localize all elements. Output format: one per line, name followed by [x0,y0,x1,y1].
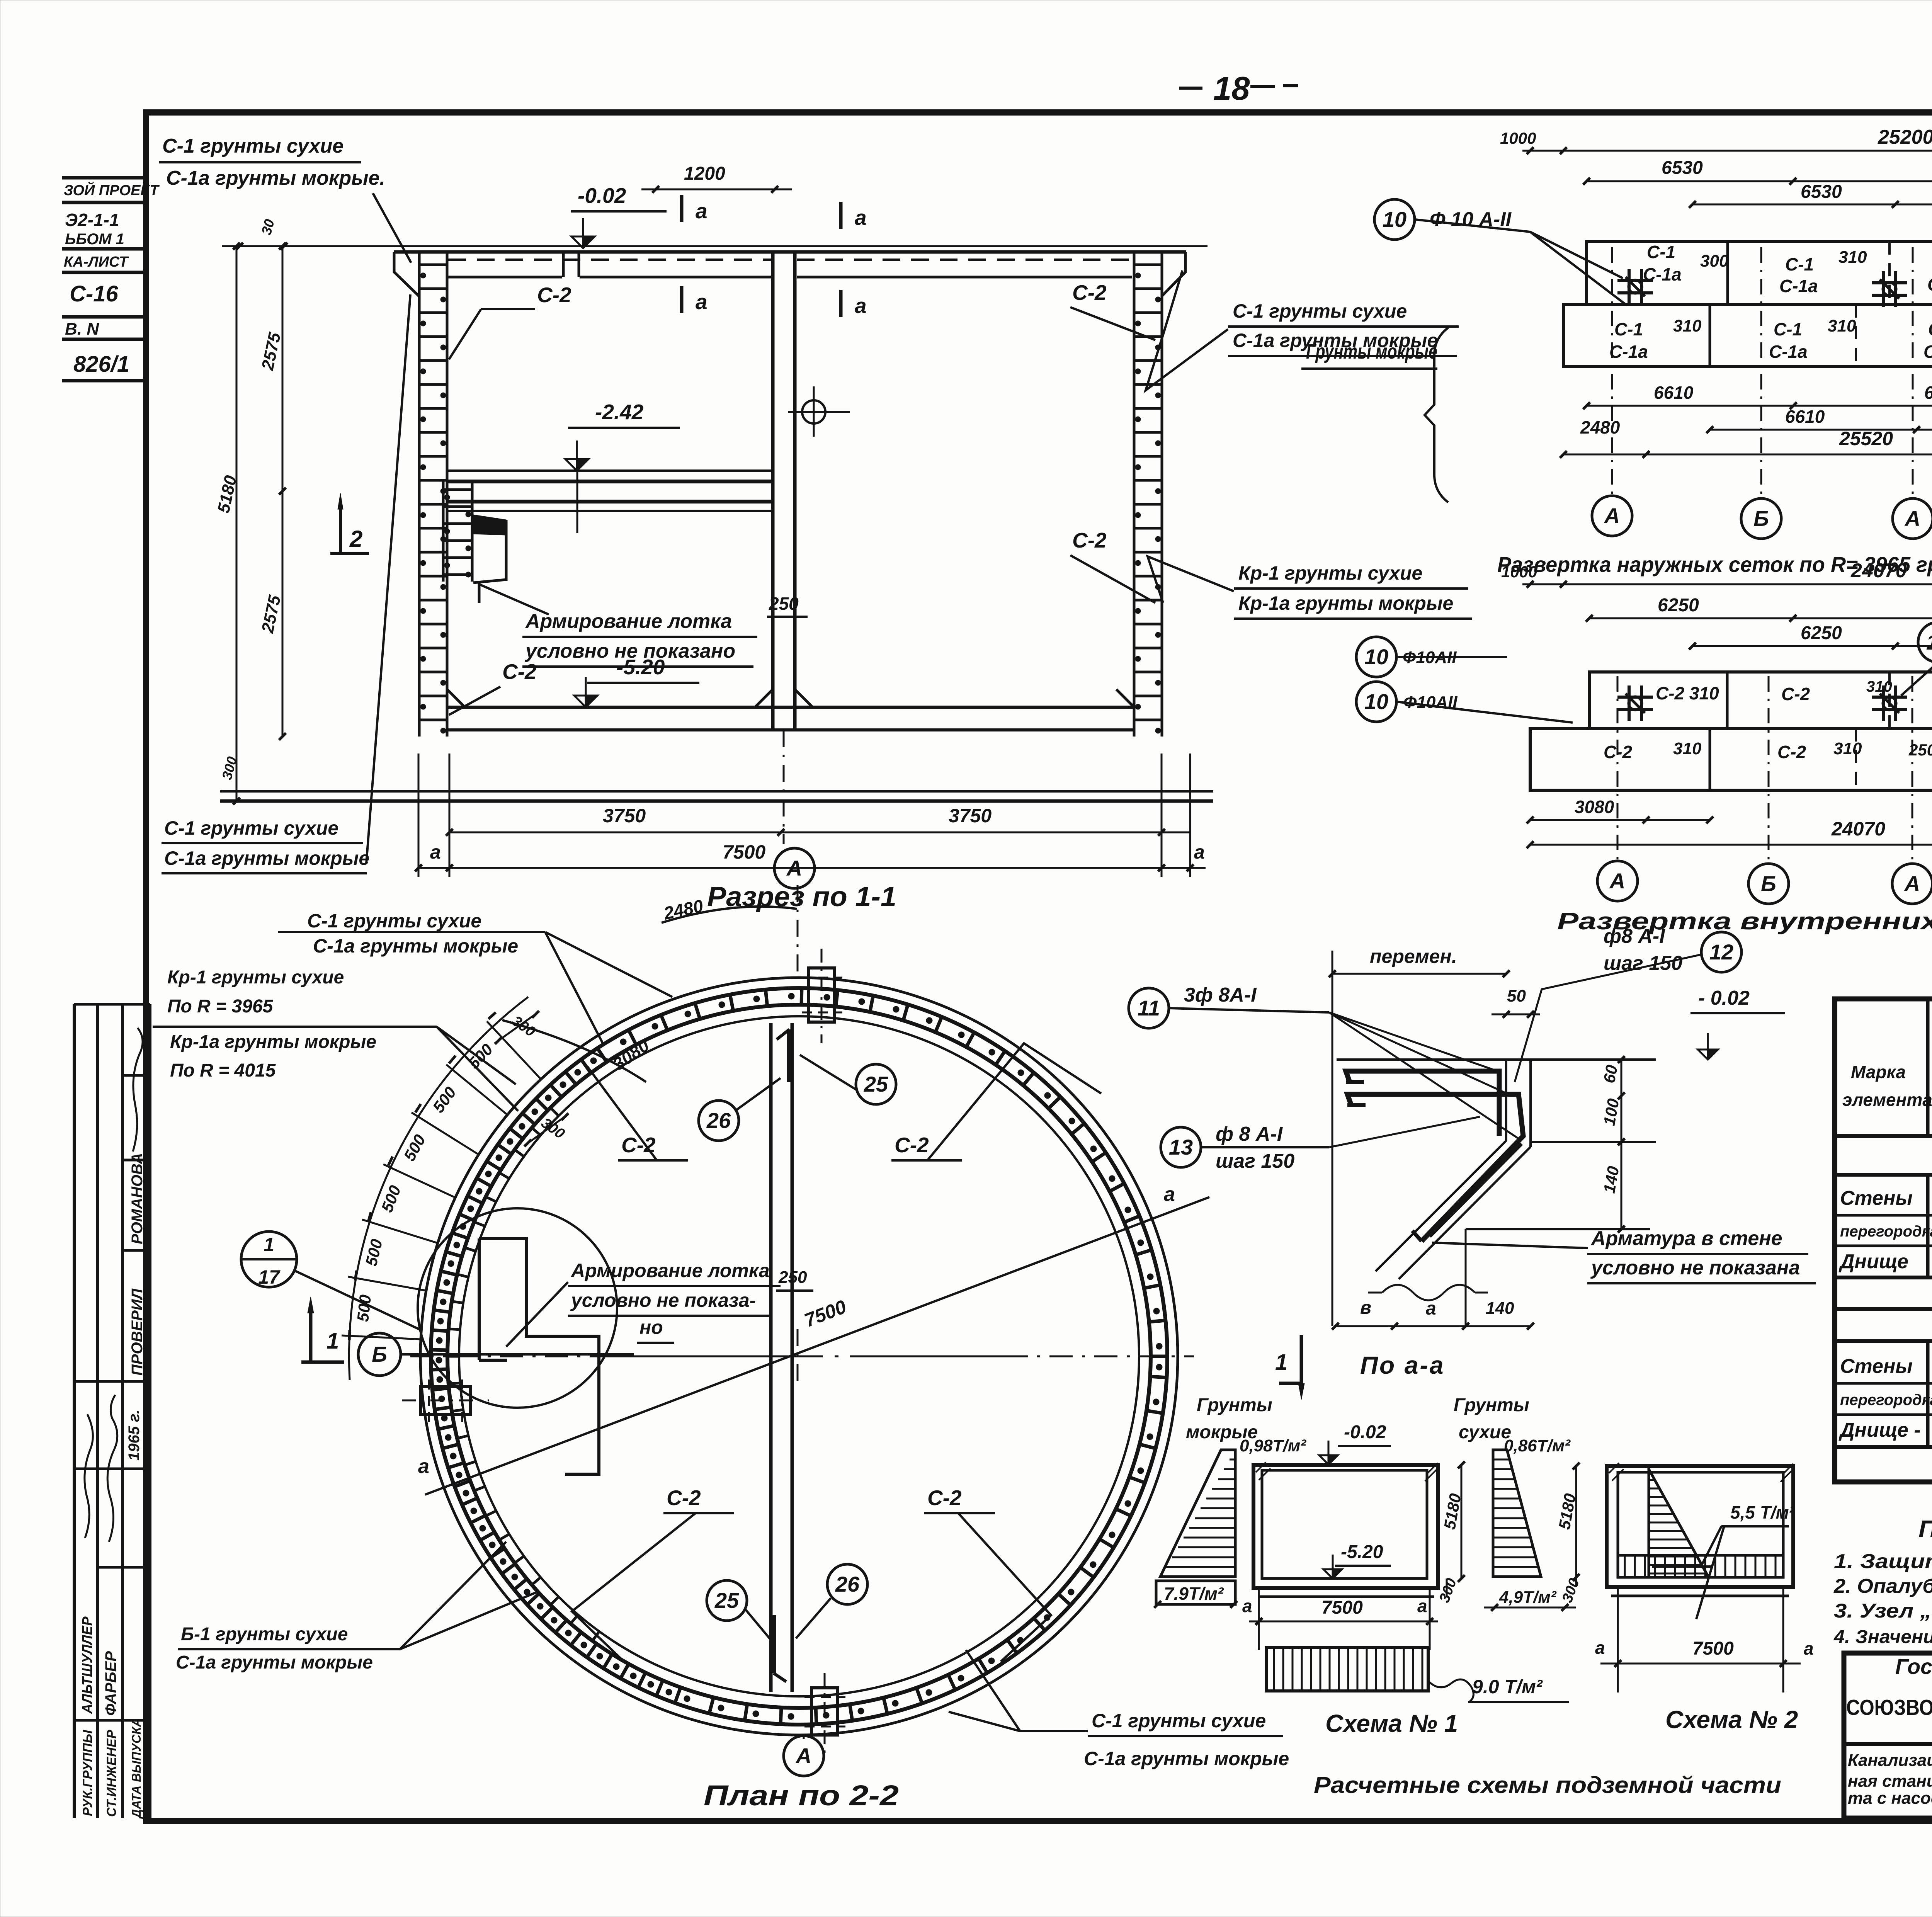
grid circle Б band2 [1748,864,1789,904]
svg-text:С-2: С-2 [537,283,571,307]
svg-text:А: А [795,1744,811,1768]
svg-text:элемента: элемента [1842,1090,1932,1110]
schema2 tank outer [1607,1466,1793,1587]
partition top rebar end [787,1029,792,1082]
svg-text:а: а [1426,1298,1436,1319]
poaa wall verticals [1505,1060,1507,1141]
schema1 left load triangle [1160,1450,1235,1577]
svg-text:3750: 3750 [949,805,992,827]
svg-text:Схема № 1: Схема № 1 [1325,1709,1458,1737]
svg-text:6530: 6530 [1662,158,1703,178]
svg-text:ФАРБЕР: ФАРБЕР [102,1651,119,1716]
svg-text:КА-ЛИСТ: КА-ЛИСТ [64,254,129,270]
svg-text:4,9Т/м²: 4,9Т/м² [1499,1588,1557,1607]
wall C-1 left ladder [418,253,421,737]
band1 bottom dim chain 6610 upper [1587,405,1932,407]
svg-text:Стены: Стены [1840,1355,1913,1378]
svg-text:18: 18 [1213,70,1250,107]
leaders from C-1 label to ring [966,1650,1088,1731]
lotok slab step edge vertical [577,472,578,533]
svg-text:300: 300 [1700,252,1729,270]
band2 bottom chain 24070 1000 [1530,844,1932,846]
svg-text:а: а [1242,1596,1252,1616]
schema1 bottom dim 7500 [1249,1621,1438,1623]
table band грунты сухие bottom [1835,1173,1932,1177]
svg-text:С-1: С-1 [1785,254,1814,274]
table band грунты мокрые bottom [1835,1339,1932,1343]
band1 row1 rectangle [1587,242,1932,304]
svg-text:4. Значения„а",„б",„в" смотри: 4. Значения„а",„б",„в" смотрите на листе… [1833,1627,1932,1647]
table row lines dry [1835,1214,1932,1217]
svg-text:Б: Б [1761,871,1776,896]
callout 26 plan top [699,1101,739,1141]
top slab dashed line right span [797,259,1132,261]
band1 row1 divider dashed [1888,242,1891,304]
callout 26 plan bottom [827,1564,867,1604]
band1 bottom dim chain 6610 lower [1710,429,1932,431]
grid circle Б band1 [1741,498,1781,539]
svg-text:перегородка: перегородка [1840,1391,1932,1408]
leader from Kr-1 to ring [437,1027,516,1084]
svg-text:1: 1 [327,1328,339,1354]
svg-text:та с насосами 2 ½ НФ или: та с насосами 2 ½ НФ или [1848,1789,1932,1808]
svg-text:Кр-1а грунты мокрые: Кр-1а грунты мокрые [1238,592,1453,614]
schema1 dim 300 right [1446,1579,1448,1597]
svg-text:С-1 грунты сухие: С-1 грунты сухие [307,910,481,932]
pipe axis circle on partition [802,400,825,424]
svg-text:С-2 310: С-2 310 [1656,683,1719,703]
section mark 2 flag [339,509,342,553]
svg-text:1. Защитный слой бетона: 1. Защитный слой бетона для--арматуры пр… [1834,1550,1932,1573]
leaders from Б-1 label to ring [400,1542,506,1649]
schema2 dim 5180 left [1575,1466,1577,1587]
svg-text:шаг 150: шаг 150 [1604,952,1682,975]
step ladder detail in left chamber [442,481,445,582]
poaa rebar second bar [1347,1094,1523,1241]
section cut a mark right upper [839,202,843,229]
plan ring circle 2 [431,988,1167,1725]
schema1 load value box 7.9 [1156,1581,1235,1604]
svg-text:6610: 6610 [1924,383,1932,403]
grid circle A2 band2 [1892,864,1932,904]
leader from note to wall [1432,1243,1588,1248]
svg-text:Днище -: Днище - [1838,1419,1921,1441]
band1 mesh anchor cross 1 [1617,279,1653,282]
plan horizontal centerline [410,1356,591,1357]
svg-text:С-2: С-2 [1072,281,1107,304]
svg-text:Ф 10 А-II: Ф 10 А-II [1430,208,1512,231]
svg-text:По R = 3965: По R = 3965 [167,996,274,1017]
svg-text:А: А [1604,503,1620,528]
band1 row2 rectangle [1563,304,1932,366]
extension verticals for dims [418,754,420,877]
bottom dim line 7500 [418,867,1206,869]
svg-text:60: 60 [1600,1063,1621,1084]
plan left mesh extra rungs [551,1108,559,1116]
svg-text:но: но [639,1317,663,1338]
svg-text:11: 11 [1138,996,1160,1020]
svg-text:А: А [1904,871,1920,896]
svg-text:7500: 7500 [1692,1638,1734,1659]
svg-text:С-1а: С-1а [1779,276,1818,296]
svg-text:6250: 6250 [1658,595,1699,616]
table column lines header [1926,999,1930,1136]
callout 25 plan bottom [707,1580,747,1621]
poaa left extension vertical [1332,951,1333,1326]
section cut a lower mark [680,286,684,313]
svg-text:12: 12 [1709,940,1733,964]
svg-text:С-1 грунты сухие: С-1 грунты сухие [1233,300,1407,322]
svg-text:310: 310 [1838,248,1867,267]
grid circle A band2 [1597,861,1638,901]
svg-text:50: 50 [1507,987,1526,1005]
svg-text:Примечания:: Примечания: [1918,1516,1932,1543]
band2 row1 divider dashed [1888,672,1891,728]
svg-text:А: А [1904,506,1920,531]
svg-text:ф8 А-I: ф8 А-I [1604,925,1665,947]
leader from 1/17 to detail [294,1271,419,1329]
svg-text:а: а [696,290,707,314]
band2 dim 6250 row A [1589,617,1932,619]
plan axis A vertical dash-dot [797,885,799,974]
leader from lower label to wall base [366,294,410,864]
svg-text:С-2: С-2 [1777,742,1806,762]
squiggle to 9.0 [1428,1679,1473,1703]
section top slab edge [394,250,1186,254]
top slab inner line right span [797,276,1132,279]
table column lines data rows wet [1926,1341,1930,1447]
узел detail bubble circle [418,1208,617,1408]
svg-text:7500: 7500 [1321,1597,1363,1618]
left wall head chamfer [394,252,419,296]
svg-text:6610: 6610 [1654,383,1694,403]
band1 dim chain 6530 row A [1587,180,1932,182]
section cut a mark right lower [839,290,843,317]
svg-text:25520: 25520 [1839,428,1893,449]
section mark 1 upper [309,1313,313,1362]
poaa wall top surface line [1337,1058,1656,1061]
svg-text:- 0.02: - 0.02 [1698,987,1750,1009]
signature strip columns [73,1004,76,1818]
svg-text:0,98Т/м²: 0,98Т/м² [1240,1436,1306,1455]
svg-text:7.9Т/м²: 7.9Т/м² [1164,1584,1224,1604]
svg-text:6530: 6530 [1801,182,1842,202]
plan inner ring circle [459,1016,1139,1696]
band2 axis extensions [1617,676,1619,861]
grid circle A2 band1 [1893,498,1932,539]
top slab notch left span [562,252,565,277]
diagonal axis a-a with 7500 [425,1197,1209,1495]
svg-text:Б: Б [1753,506,1769,531]
poaa break squiggle [1382,1285,1475,1300]
svg-text:условно не показано: условно не показано [524,640,735,662]
plan outer ring circle [420,978,1178,1735]
svg-text:а: а [430,841,441,863]
svg-text:С-2: С-2 [1781,684,1810,704]
schema2 top corner hatch marks [1609,1463,1793,1482]
svg-text:условно не показа-: условно не показа- [570,1289,756,1311]
callout 12 ф8А-I шаг150 top [1701,932,1742,972]
table outer border [1835,999,1932,1482]
svg-text:ПРОВЕРИЛ: ПРОВЕРИЛ [129,1288,146,1376]
poaa diagonal rebar second [1430,1144,1522,1237]
svg-text:ДАТА ВЫПУСКА: ДАТА ВЫПУСКА [129,1718,143,1819]
svg-text:СОЮЗВОДОКАНАЛПРОЕКТ: СОЮЗВОДОКАНАЛПРОЕКТ [1846,1695,1932,1720]
grid circle A bottom of plan [784,1736,824,1776]
plan partition wall vertical double line [769,1023,773,1692]
svg-text:9.0 Т/м²: 9.0 Т/м² [1472,1676,1543,1698]
svg-text:С-2: С-2 [667,1486,701,1510]
svg-text:Армирование лотка: Армирование лотка [525,610,732,633]
band2 callout 10 top [1918,622,1932,662]
grid circle Б left of plan [358,1333,401,1376]
svg-text:2. Опалубочные чертежи см: 2. Опалубочные чертежи смотрите лист АС-… [1833,1575,1932,1597]
svg-text:250: 250 [778,1268,807,1287]
lotok slab level -2.42 lines [447,469,773,472]
svg-text:1965 г.: 1965 г. [126,1410,143,1461]
svg-text:Арматура в стене: Арматура в стене [1590,1227,1782,1250]
band2 row2 rectangle [1530,728,1932,790]
leaders from C-1 label to ring top [545,932,672,997]
svg-text:1: 1 [1275,1350,1287,1375]
svg-text:ная станция на 2 агрега-: ная станция на 2 агрега- [1848,1772,1932,1791]
svg-text:26: 26 [835,1572,860,1596]
svg-text:25: 25 [864,1072,888,1096]
band1 callout circle 10 with Ф10А-II [1374,199,1415,240]
band1 row1 divider 1 [1726,242,1729,304]
band2 top dim 24070 [1522,583,1932,585]
svg-text:6610: 6610 [1785,407,1825,427]
svg-text:С-1а: С-1а [1923,342,1932,362]
svg-text:С-1: С-1 [1774,319,1802,339]
axis Б leader line [401,1353,634,1356]
svg-text:Марка: Марка [1851,1062,1906,1082]
svg-text:25200: 25200 [1878,126,1932,148]
schema1 tank inner [1262,1470,1427,1579]
svg-text:ЬБОМ 1: ЬБОМ 1 [65,231,124,248]
svg-text:ЗОЙ ПРОЕКТ: ЗОЙ ПРОЕКТ [64,181,160,199]
сальник block left [420,1386,471,1414]
schema2 bottom dim 7500 [1600,1663,1801,1665]
grid circle A band1 [1592,496,1632,536]
svg-text:3750: 3750 [603,805,646,827]
svg-text:Расчетные схемы подземно: Расчетные схемы подземной части [1314,1772,1781,1798]
svg-text:С-1 грунты сухие: С-1 грунты сухие [164,817,338,839]
top slab inner line left span [447,276,562,279]
svg-text:Э2-1-1: Э2-1-1 [65,210,119,230]
poaa lower horizontal line right [1466,1228,1650,1230]
svg-text:310: 310 [1828,316,1856,335]
poaa bottom dim chain [1335,1325,1531,1327]
svg-text:С-1: С-1 [1928,319,1932,339]
svg-text:1000: 1000 [1501,563,1537,581]
svg-text:а: а [418,1455,429,1478]
band2 row1 divider1 [1726,672,1729,728]
table header bottom line [1835,1134,1932,1138]
svg-text:а: а [1804,1638,1814,1658]
lotok step profile in plan [478,1238,481,1360]
svg-text:250: 250 [769,594,799,614]
svg-text:С-1а грунты мокрые: С-1а грунты мокрые [164,847,369,869]
svg-text:С-1а грунты мокрые: С-1а грунты мокрые [176,1652,373,1673]
svg-text:С-1а грунты мокрые: С-1а грунты мокрые [1084,1748,1289,1769]
svg-text:Схема № 2: Схема № 2 [1665,1706,1798,1733]
svg-text:10: 10 [1383,207,1406,231]
schema2 right load triangle [1493,1450,1541,1577]
poaa right dim chain [1621,1060,1622,1229]
svg-text:а: а [855,294,867,318]
svg-text:а: а [1194,841,1205,863]
svg-text:-5.20: -5.20 [1341,1542,1383,1562]
section floor line top [447,706,1134,709]
schema1 tank outer [1253,1465,1438,1588]
svg-text:310: 310 [1866,678,1892,695]
svg-text:С-1а: С-1а [1769,342,1808,362]
plan ring circle 3 [447,1005,1151,1708]
svg-text:24070: 24070 [1831,818,1885,840]
leader from label to left wall [373,193,411,263]
svg-text:13: 13 [1169,1135,1193,1159]
svg-text:Армирование лотка: Армирование лотка [570,1260,770,1281]
svg-text:условно не показана: условно не показана [1590,1257,1800,1279]
svg-text:С-1а: С-1а [1609,342,1648,362]
svg-text:Б-1 грунты сухие: Б-1 грунты сухие [181,1624,348,1645]
svg-text:шаг 150: шаг 150 [1216,1150,1294,1172]
svg-text:а: а [1595,1638,1605,1658]
rotated signature top [133,1028,143,1152]
svg-text:10: 10 [1364,645,1388,669]
svg-text:а: а [1417,1596,1427,1616]
svg-text:310: 310 [1673,316,1702,335]
section mark 1 near poaa [1300,1335,1303,1383]
svg-text:1200: 1200 [684,163,725,184]
svg-text:С-2: С-2 [502,660,537,684]
svg-text:План по 2-2: План по 2-2 [704,1779,899,1812]
band1 mesh anchor cross 2 [1872,281,1907,284]
svg-text:3ф 8А-I: 3ф 8А-I [1184,984,1257,1006]
svg-text:С-1а: С-1а [1927,274,1932,294]
svg-text:С-16: С-16 [70,281,118,306]
bottom dim line 3750+3750 [449,832,1190,833]
svg-text:в: в [1360,1298,1371,1318]
svg-text:5,5 Т/м²: 5,5 Т/м² [1730,1502,1796,1522]
svg-text:С-1а: С-1а [1643,264,1682,284]
schema1 base slab line [1253,1587,1438,1590]
rotated signature col2 [107,1395,117,1542]
arc dimension 3080 [502,1020,646,1082]
partition bottom rebar end [771,1615,776,1673]
svg-text:826/1: 826/1 [73,352,129,377]
svg-text:РУК.ГРУППЫ: РУК.ГРУППЫ [80,1730,95,1816]
band2 row1 rectangle [1589,672,1932,728]
band2 callout 10 left upper [1356,637,1396,677]
band2 row2 divider1 [1709,728,1711,790]
schema2 bottom band hatched [1618,1554,1783,1557]
svg-text:С-1: С-1 [1614,319,1643,339]
section cut a upper mark [680,195,684,222]
svg-text:-2.42: -2.42 [595,400,644,424]
сальник block bottom [811,1688,838,1735]
svg-text:Стены: Стены [1840,1187,1913,1209]
arc dimension 2480 [662,907,797,923]
svg-text:Днище: Днище [1838,1250,1908,1273]
svg-text:Госстрой СССР: Госстрой СССР [1895,1654,1932,1679]
band1 brace left for грунты мокрые [1425,328,1448,502]
rotated signature col1 [85,1414,93,1538]
svg-text:Кр-1 грунты сухие: Кр-1 грунты сухие [167,967,344,988]
svg-text:а: а [696,199,707,223]
band2 mesh cross 2 [1872,696,1907,699]
left outer dim line 5180 [236,246,238,801]
floor corner chamfers [447,689,465,707]
band2 row2 divider2 [1855,728,1857,790]
wall C-1 right ladder [1133,253,1136,737]
svg-text:АЛЬТШУЛЛЕР: АЛЬТШУЛЛЕР [79,1616,95,1714]
poaa bottom extension vertical [1465,1229,1467,1326]
schema2 inner pressure triangle hatched [1649,1469,1709,1577]
left inner dim line 2575+2575 [282,246,284,737]
title block left cell line under москва [1844,1742,1932,1746]
band1 bottom long chain 2480 25520 1000 [1563,454,1932,456]
band2 bottom dim 3080 [1530,819,1710,821]
svg-text:а: а [855,206,867,230]
svg-text:10: 10 [1926,630,1932,654]
svg-text:В. N: В. N [65,320,99,338]
signature strip row lines [74,1003,150,1006]
svg-text:А: А [786,856,802,880]
svg-text:а: а [1164,1183,1175,1206]
top slab dashed line left span [448,259,771,261]
svg-text:С-2: С-2 [927,1486,962,1510]
svg-text:С-1: С-1 [1647,242,1675,262]
band2 callout 10 left lower [1356,682,1396,722]
svg-text:Грунты мокрые: Грунты мокрые [1306,340,1437,363]
step wedge filled [473,515,506,535]
svg-text:2: 2 [349,526,362,552]
svg-text:6250: 6250 [1801,623,1842,643]
leader lines right label to right wall [1146,270,1228,390]
svg-text:С-2: С-2 [895,1133,929,1157]
callout 13 ф8А-I шаг150 [1161,1127,1201,1167]
svg-text:Б: Б [372,1342,387,1366]
right wall head chamfer [1162,252,1185,296]
callout 25 plan top [856,1064,896,1104]
band2 mesh cross 1 [1617,696,1653,699]
band1 dim chain 6530 row B [1692,204,1932,206]
poaa rebar diagonal bar hook [1412,1231,1422,1241]
dim 1200 top [641,189,792,191]
svg-text:0,86Т/м²: 0,86Т/м² [1504,1436,1571,1455]
svg-text:140: 140 [1486,1299,1514,1318]
svg-text:-0.02: -0.02 [578,184,626,208]
svg-text:17: 17 [258,1266,281,1288]
svg-text:24070: 24070 [1850,560,1907,582]
svg-text:310: 310 [1833,739,1862,758]
svg-text:С-1а грунты мокрые: С-1а грунты мокрые [313,935,518,957]
leader from Kr-1 label to right wall [1148,556,1234,603]
svg-text:Канализационная насос-: Канализационная насос- [1848,1751,1932,1770]
svg-text:Грунты: Грунты [1197,1395,1272,1415]
section floor line bottom [447,728,1134,731]
step profile lines [473,520,506,583]
svg-text:3. Узел „1" смотрите лист: 3. Узел „1" смотрите лист АС-17. [1834,1600,1932,1622]
svg-text:3080: 3080 [1575,797,1614,817]
svg-text:С-1 грунты сухие: С-1 грунты сухие [162,135,344,157]
svg-text:По R = 4015: По R = 4015 [170,1060,276,1081]
schema2 base line [1611,1595,1789,1597]
band2 dim 6250 row B [1692,645,1932,647]
svg-text:1000: 1000 [1500,129,1536,147]
